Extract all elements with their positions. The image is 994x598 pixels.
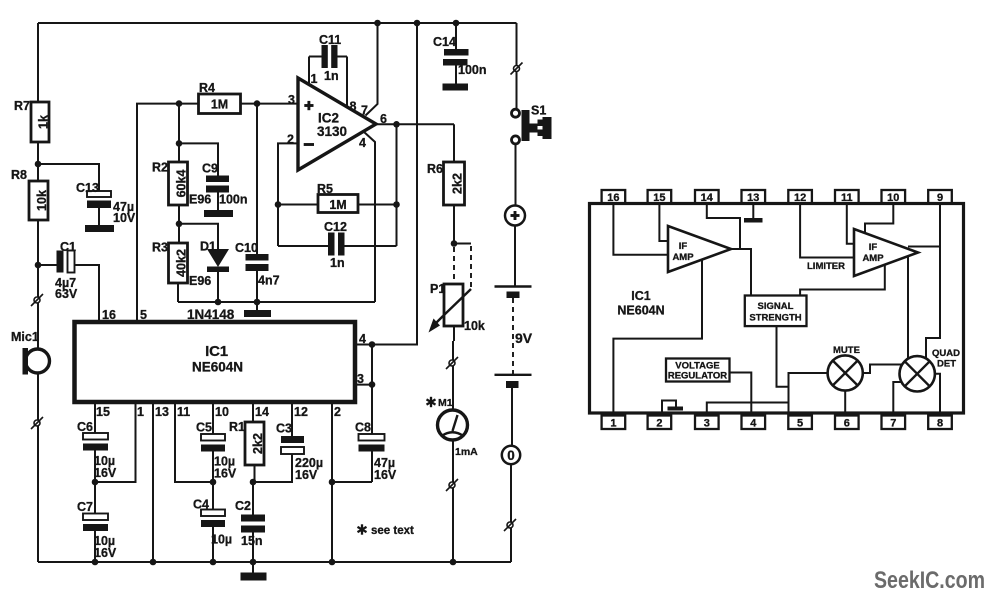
wire top supply rail: [38, 22, 517, 24]
svg-text:AMP: AMP: [862, 253, 884, 264]
connector point bottom right: [504, 519, 516, 531]
wire zero terminal to rail: [510, 464, 512, 562]
pin label 6: [380, 112, 387, 126]
pin label 11: [177, 405, 190, 419]
label see text: [358, 524, 415, 537]
svg-text:4: 4: [359, 332, 366, 346]
ground bar below C13: [85, 225, 114, 232]
IC block outer box NE604N: [590, 204, 964, 414]
svg-text:QUAD: QUAD: [932, 348, 960, 359]
pin label 8: [350, 100, 357, 114]
svg-text:IC1: IC1: [631, 289, 651, 303]
svg-text:9V: 9V: [515, 330, 533, 346]
svg-text:12: 12: [794, 192, 806, 204]
svg-text:IF: IF: [869, 242, 878, 253]
svg-text:8: 8: [937, 417, 943, 429]
svg-text:M1: M1: [438, 397, 453, 409]
svg-text:C3: C3: [276, 422, 292, 436]
ground bar below C14: [443, 84, 469, 91]
svg-text:14: 14: [701, 192, 714, 204]
label NE604N (block): [617, 304, 664, 318]
label IC1 (block): [631, 289, 651, 303]
connector point mic bottom: [31, 417, 43, 429]
node R8/C1/mic junction: [35, 262, 42, 269]
pin box 4 (bottom): [742, 416, 766, 430]
capacitor C10 4n7: [235, 104, 280, 302]
wire C1 left lead: [38, 264, 57, 266]
svg-text:AMP: AMP: [672, 252, 694, 263]
capacitor C4 10u: [193, 482, 232, 562]
pin box 6 (bottom): [835, 416, 859, 430]
wire R5 left lead: [278, 204, 318, 206]
capacitor C11 1n: [309, 33, 347, 83]
svg-text:S1: S1: [531, 104, 546, 118]
wire op-amp pin2: [278, 143, 298, 246]
svg-text:14: 14: [255, 405, 269, 419]
pin label 12: [294, 405, 308, 419]
svg-text:15n: 15n: [241, 534, 263, 548]
svg-text:16V: 16V: [374, 468, 397, 482]
svg-text:3: 3: [288, 93, 295, 107]
pin box 16 (top): [602, 190, 626, 204]
wire M1 to ground rail: [452, 440, 454, 562]
amplifier IF AMP 1: [668, 226, 731, 272]
svg-text:16V: 16V: [295, 468, 318, 482]
wire R1 bottom: [254, 465, 256, 482]
svg-text:10V: 10V: [113, 211, 136, 225]
block VOLTAGE REGULATOR: [666, 359, 730, 382]
svg-text:C12: C12: [324, 220, 347, 234]
node C7/ground rail: [92, 559, 99, 566]
svg-text:NE604N: NE604N: [192, 360, 243, 375]
svg-text:C2: C2: [235, 499, 251, 513]
potentiometer P1 10k: [429, 282, 485, 333]
wire R7-R8: [37, 142, 39, 181]
svg-text:16V: 16V: [214, 467, 237, 481]
svg-text:IF: IF: [679, 241, 688, 252]
mixer QUAD DET: [900, 348, 961, 391]
wire P1 wiper dashed link: [454, 244, 471, 288]
svg-text:13: 13: [155, 405, 169, 419]
pin box 13 (top): [742, 190, 766, 204]
node R5-left junction: [275, 201, 282, 208]
svg-text:C10: C10: [235, 241, 258, 255]
svg-text:R1: R1: [229, 420, 245, 434]
microphone Mic1: [11, 330, 50, 375]
pin label 5: [140, 308, 147, 322]
mixer MUTE: [828, 345, 863, 391]
pin box 15 (top): [648, 190, 672, 204]
wire op-amp output pin6: [376, 123, 454, 125]
wire to C9: [179, 143, 218, 175]
wire signal strength to pin5 net: [777, 326, 789, 387]
pin label 13: [155, 405, 169, 419]
connector point below M1: [446, 479, 458, 491]
svg-text:16V: 16V: [94, 546, 117, 560]
connector point S1 top: [511, 63, 523, 75]
capacitor C5 10u 16V: [196, 421, 237, 483]
pin label 16: [102, 308, 116, 322]
wire IC1 pin14 to R1: [252, 402, 254, 422]
svg-text:C11: C11: [319, 33, 341, 47]
ground bar below C9: [204, 210, 233, 217]
svg-text:10k: 10k: [35, 190, 49, 211]
wire down to C8: [371, 345, 373, 435]
svg-text:8: 8: [350, 100, 357, 114]
svg-text:C9: C9: [202, 162, 218, 176]
wire mute right to quad det: [863, 365, 902, 374]
svg-text:2k2: 2k2: [451, 173, 465, 194]
pin label 2 (IC1 bottom): [334, 405, 341, 419]
pin label 4: [359, 136, 366, 150]
wire IC1 pin12 to C3: [291, 402, 293, 436]
node output junction: [393, 121, 400, 128]
amplifier IF AMP 2 limiter: [854, 229, 918, 276]
svg-text:2k2: 2k2: [251, 433, 265, 454]
node pin13/ground rail: [150, 559, 157, 566]
wire IC1 pin15 to C6: [94, 402, 96, 433]
wire rail to S1: [516, 23, 518, 109]
wire IF2 output to pin9 net: [908, 246, 940, 248]
svg-text:D1: D1: [200, 240, 216, 254]
battery 9V cell 1: [495, 287, 532, 299]
svg-text:SeekIC.com: SeekIC.com: [874, 567, 985, 594]
node C6/C7/pin1 junction: [92, 479, 99, 486]
capacitor C14 100n: [433, 23, 487, 84]
svg-text:1n: 1n: [330, 256, 345, 270]
resistor R5 1M feedback: [317, 182, 358, 213]
label 9V: [515, 330, 533, 346]
capacitor C13 47u 10V electrolytic: [76, 181, 136, 225]
svg-text:11: 11: [841, 192, 853, 204]
wire mic top: [37, 265, 39, 349]
wire pin10 to IF2 top: [865, 204, 893, 234]
switch S1 terminal bottom: [512, 136, 520, 144]
resistor R8 10k: [11, 168, 49, 220]
capacitor C9 100n: [202, 162, 248, 211]
pin box 1 (bottom): [602, 416, 626, 430]
svg-text:R6: R6: [427, 162, 443, 176]
battery zero terminal: [502, 446, 520, 464]
pin label 2: [287, 133, 294, 147]
wire op-amp pin7 to rail: [366, 23, 378, 116]
watermark SeekIC.com: [874, 567, 985, 594]
pin box 14 (top): [695, 190, 719, 204]
op-amp IC2 3130: [298, 78, 376, 170]
node pin3 column: [369, 381, 376, 388]
label 1N4148: [187, 307, 235, 322]
capacitor C2 15n: [235, 482, 265, 562]
node junction top rail / C14: [453, 20, 460, 27]
wire R5 right lead: [358, 204, 397, 206]
wire R6 bottom: [453, 205, 455, 244]
svg-text:C4: C4: [193, 498, 209, 512]
svg-text:15: 15: [96, 405, 110, 419]
wire bottom ground rail: [38, 561, 511, 563]
svg-text:SIGNAL: SIGNAL: [758, 301, 794, 312]
node junction top rail / op-amp pin7: [374, 20, 381, 27]
svg-text:C7: C7: [77, 500, 93, 514]
pin label 15: [96, 405, 110, 419]
svg-text:10k: 10k: [464, 319, 485, 333]
resistor R6 2k2: [427, 162, 465, 205]
wire pin11 to IF2 upper input: [847, 204, 854, 244]
wire IC1 pin10 to C5: [212, 402, 214, 434]
svg-text:3: 3: [704, 417, 710, 429]
battery plus terminal: [505, 206, 525, 226]
wire IC1 pin4 to rail vertical: [355, 23, 417, 345]
pin box 11 (top): [835, 190, 859, 204]
wire pin3 stub: [355, 384, 372, 386]
svg-text:C5: C5: [196, 421, 212, 435]
svg-text:40k2: 40k2: [175, 249, 189, 277]
wire pin3 to pin5 net: [707, 403, 789, 416]
svg-text:0: 0: [507, 448, 515, 463]
wire pin7 to quad det: [893, 382, 901, 416]
svg-text:1M: 1M: [211, 98, 228, 112]
pin label 10: [215, 405, 229, 419]
svg-text:13: 13: [747, 192, 759, 204]
pin box 12 (top): [788, 190, 812, 204]
battery 9V cell 2: [495, 375, 532, 388]
svg-text:3130: 3130: [317, 124, 347, 139]
wire IC1 pin5 to R4 node: [137, 104, 199, 322]
node C10/ground rail: [254, 299, 261, 306]
svg-text:1n: 1n: [324, 69, 339, 83]
pin box 9 (top): [928, 190, 952, 204]
diode D1 1N4148: [200, 240, 229, 303]
node R4-left / R2 junction: [176, 100, 183, 107]
pin box 5 (bottom): [788, 416, 812, 430]
svg-text:E96: E96: [189, 274, 211, 288]
svg-text:R2: R2: [152, 161, 168, 175]
wire quad det to pin8: [935, 374, 940, 416]
ground bar pin13: [744, 218, 763, 223]
node R4-right / C10 / pin3 junction: [254, 100, 261, 107]
pin label 7: [361, 104, 368, 118]
connector point mic top: [31, 294, 43, 306]
node M1/ground rail: [450, 559, 457, 566]
node R2/R3/D1 junction: [176, 221, 183, 228]
svg-text:P1: P1: [430, 282, 445, 296]
node R5-right / output vertical: [393, 201, 400, 208]
capacitor C7 10u 16V: [77, 482, 117, 562]
IC IC1 NE604N: [75, 322, 356, 402]
pin box 7 (bottom): [882, 416, 906, 430]
switch S1 pushbutton body: [522, 104, 552, 142]
ground bar pin2 block: [668, 407, 684, 411]
wire mute bottom to pin6: [844, 391, 846, 416]
svg-text:MUTE: MUTE: [833, 345, 860, 356]
svg-text:LIMITER: LIMITER: [807, 261, 845, 272]
wire R4 to op-amp pin3: [241, 103, 299, 105]
wire IC1 pin11 to C5 node: [175, 402, 213, 482]
wire op-amp pin1 stub: [308, 57, 310, 86]
resistor R3 40k2: [152, 241, 211, 289]
wire pin14 to IF1 output: [707, 204, 740, 250]
wire output feedback vertical: [396, 124, 398, 246]
svg-text:DET: DET: [937, 359, 956, 370]
svg-text:NE604N: NE604N: [617, 304, 664, 318]
svg-text:4n7: 4n7: [258, 274, 280, 288]
pin box 2 (bottom): [648, 416, 672, 430]
wire voltage regulator to pin4: [730, 373, 752, 416]
svg-text:Mic1: Mic1: [11, 330, 39, 344]
svg-text:2: 2: [656, 417, 662, 429]
svg-text:C8: C8: [355, 421, 371, 435]
node C4/ground rail: [210, 559, 217, 566]
ground bar bottom center: [241, 562, 267, 581]
svg-text:IC1: IC1: [205, 343, 228, 360]
pin label 1: [311, 72, 318, 86]
svg-text:16V: 16V: [94, 466, 117, 480]
svg-text:R3: R3: [152, 241, 168, 255]
wire IF2 to signal strength right: [800, 265, 885, 296]
wire plus terminal to battery: [514, 226, 516, 287]
svg-text:E96: E96: [189, 193, 211, 207]
svg-text:C1: C1: [60, 240, 76, 254]
capacitor C6 10u 16V: [77, 420, 117, 482]
svg-text:7: 7: [890, 417, 896, 429]
svg-text:16: 16: [102, 308, 116, 322]
svg-text:1M: 1M: [329, 198, 346, 212]
svg-text:100n: 100n: [219, 193, 248, 207]
connector point above M1: [446, 357, 458, 369]
wire S1 to battery plus: [515, 144, 517, 206]
svg-text:1k: 1k: [37, 115, 51, 129]
svg-text:100n: 100n: [458, 63, 487, 77]
node R1/C2/C3 junction: [250, 479, 257, 486]
wire to C13: [38, 164, 99, 191]
capacitor C3 220u 16V: [255, 422, 324, 483]
svg-text:60k4: 60k4: [175, 170, 189, 198]
wire battery minus down: [511, 388, 513, 446]
wire pin2 stub block: [662, 401, 676, 416]
node C5/C4 junction: [210, 479, 217, 486]
svg-text:9: 9: [937, 192, 943, 204]
svg-text:15: 15: [653, 192, 665, 204]
svg-text:R5: R5: [317, 182, 333, 196]
svg-text:4: 4: [359, 136, 366, 150]
wire IC1 pin13 to rail: [152, 402, 154, 562]
label LIMITER: [807, 261, 845, 272]
wire P1 to meter: [453, 326, 454, 410]
wire R6 top: [453, 124, 455, 162]
capacitor C1 4u7 63V: [55, 240, 78, 301]
svg-text:1: 1: [311, 72, 318, 86]
wire C11 to pin8: [346, 57, 348, 108]
wire pin15 to IF1 upper input: [659, 204, 668, 242]
svg-text:1: 1: [137, 405, 144, 419]
pin label 1 (IC1 bottom): [137, 405, 144, 419]
resistor R7 1k: [14, 99, 51, 142]
wire junction to pin1: [95, 402, 136, 482]
wire pin9 vertical: [926, 204, 940, 359]
switch S1 terminal top: [512, 109, 520, 117]
svg-text:5: 5: [140, 308, 147, 322]
pin label 4 (IC1): [359, 332, 366, 346]
wire R2-R3: [178, 205, 180, 243]
wire IC1 pin2 to rail: [331, 402, 333, 562]
svg-text:16: 16: [607, 192, 619, 204]
svg-text:10µ: 10µ: [211, 533, 232, 547]
capacitor C8 47u 16V: [332, 421, 397, 483]
wire mute left to pin5: [789, 373, 828, 416]
svg-text:10: 10: [887, 192, 899, 204]
svg-text:11: 11: [177, 405, 190, 419]
meter M1 1mA: [427, 397, 479, 458]
wire pin13 stub: [752, 204, 754, 219]
node C2/ground rail: [250, 559, 257, 566]
svg-text:2: 2: [334, 405, 341, 419]
svg-text:STRENGTH: STRENGTH: [749, 313, 801, 324]
svg-text:63V: 63V: [55, 287, 78, 301]
pin label 3: [288, 93, 295, 107]
battery dashed middle: [512, 298, 514, 374]
svg-text:REGULATOR: REGULATOR: [668, 371, 727, 382]
node D1/ground rail: [215, 299, 222, 306]
pin label 14: [255, 405, 269, 419]
wire mic bottom to ground rail: [37, 374, 39, 563]
node R7/R8/C13 junction: [35, 161, 42, 168]
pin label 3 (IC1): [357, 372, 364, 386]
svg-text:C6: C6: [77, 420, 93, 434]
node C8/pin2 junction: [329, 479, 336, 486]
resistor R4 1M: [199, 81, 241, 114]
node R6/P1 junction: [451, 240, 458, 247]
svg-text:C14: C14: [433, 35, 456, 49]
node pin4/pin3 column top: [369, 341, 376, 348]
wire IF1 output to signal strength: [731, 249, 751, 296]
block SIGNAL STRENGTH: [745, 296, 807, 327]
svg-text:12: 12: [294, 405, 308, 419]
svg-text:R4: R4: [199, 81, 215, 95]
svg-text:C13: C13: [76, 181, 99, 195]
node pin2/ground rail: [329, 559, 336, 566]
wire C1 to IC1 pin16: [75, 265, 100, 322]
wire R7 top to rail: [37, 23, 39, 102]
wire pin1 to IF1 bottom: [613, 261, 702, 416]
wire R2 top: [178, 104, 180, 162]
wire IF2 bottom to quad det: [907, 257, 909, 359]
node junction top rail / IC1 pin4 line: [414, 20, 421, 27]
wire to D1 anode: [179, 224, 218, 249]
resistor R2 60k4: [152, 161, 211, 207]
svg-text:see text: see text: [371, 525, 414, 537]
wire op-amp pin4 to ground rail: [364, 132, 376, 303]
ground bar below rail: [244, 302, 271, 317]
node R2 top / C9 junction: [176, 140, 183, 147]
resistor R1 2k2: [229, 420, 265, 465]
svg-text:R8: R8: [11, 168, 27, 182]
svg-text:5: 5: [797, 417, 803, 429]
svg-text:1: 1: [610, 417, 616, 429]
wire R8 to C1 node: [37, 220, 39, 265]
svg-text:R7: R7: [14, 99, 30, 113]
svg-text:1mA: 1mA: [455, 446, 478, 458]
wire analog ground rail (pin4 net): [178, 301, 375, 303]
pin box 8 (bottom): [928, 416, 952, 430]
svg-text:6: 6: [844, 417, 850, 429]
wire pin16 to IF1 lower input: [613, 204, 668, 255]
pin box 3 (bottom): [695, 416, 719, 430]
svg-text:3: 3: [357, 372, 364, 386]
capacitor C12 1n: [278, 220, 397, 270]
pin box 10 (top): [882, 190, 906, 204]
wire pin12 to IF2 lower input: [800, 204, 854, 258]
svg-text:10: 10: [215, 405, 229, 419]
wire R3 bottom: [177, 283, 179, 302]
